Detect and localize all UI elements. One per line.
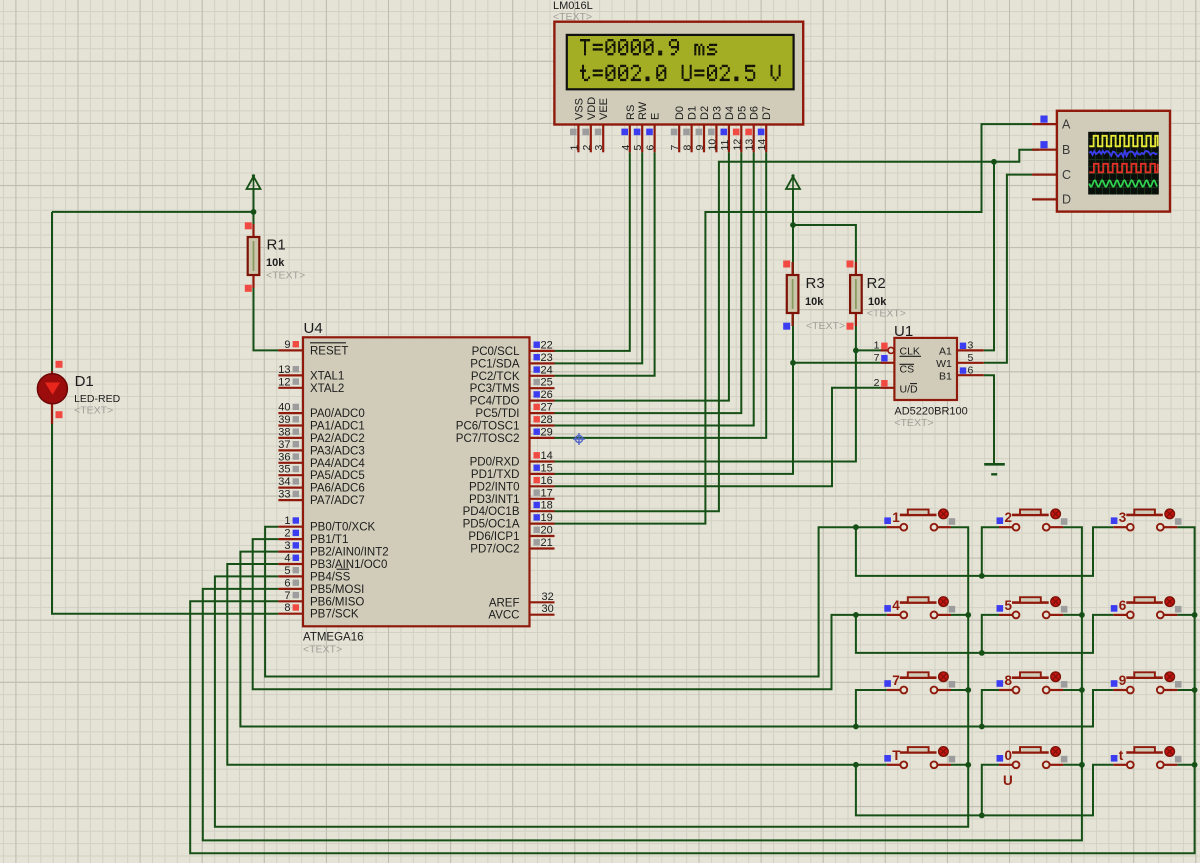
- svg-text:PA2/ADC2: PA2/ADC2: [310, 433, 365, 445]
- svg-text:PA0/ADC0: PA0/ADC0: [310, 408, 365, 420]
- U4 pin 29 PC7/TOSC2: [456, 426, 555, 445]
- U4 pin 21 PD7/OC2: [470, 537, 554, 556]
- U1 pin 7 CS: [874, 352, 914, 376]
- svg-text:4: 4: [620, 145, 632, 151]
- svg-text:A: A: [1062, 117, 1071, 131]
- junction col3 row2: [1192, 612, 1198, 618]
- LCD screen: [567, 35, 794, 89]
- svg-text:5: 5: [1005, 598, 1013, 613]
- R1 pin state squares: [245, 222, 252, 291]
- svg-text:14: 14: [541, 450, 553, 462]
- wire: LCD RS to PC0: [555, 152, 630, 351]
- wire: CLK to R2/PD0 net: [856, 349, 888, 351]
- svg-text:XTAL2: XTAL2: [310, 383, 344, 395]
- svg-text:21: 21: [541, 537, 553, 549]
- wire: col3 row2 tap: [1177, 614, 1194, 616]
- svg-text:24: 24: [541, 364, 553, 376]
- U4 pin 1 PB0/T0/XCK: [278, 515, 375, 534]
- svg-text:<TEXT>: <TEXT>: [303, 644, 342, 656]
- svg-text:1: 1: [874, 340, 880, 352]
- svg-text:10k: 10k: [805, 296, 824, 308]
- LCD pin 8 D1: [682, 106, 699, 152]
- wire: PB6 pin7 to keypad column 3: [190, 527, 1194, 853]
- svg-text:28: 28: [541, 414, 553, 426]
- svg-text:18: 18: [541, 500, 553, 512]
- svg-text:36: 36: [278, 451, 290, 463]
- wire: col3 row3 tap: [1177, 689, 1194, 691]
- U4 pin 34 PA6/ADC6: [278, 476, 365, 495]
- svg-text:<TEXT>: <TEXT>: [867, 308, 906, 320]
- wire: LCD D5 to PC5: [555, 152, 742, 413]
- wire: row2 riser to button 5: [982, 615, 999, 653]
- power symbol VCC arrow 1: [247, 174, 261, 189]
- svg-text:4: 4: [284, 553, 290, 565]
- svg-text:9: 9: [284, 339, 290, 351]
- U4 pin 7 PB6/MISO: [278, 590, 364, 609]
- svg-text:PD5/OC1A: PD5/OC1A: [463, 519, 520, 531]
- svg-text:PD0/RXD: PD0/RXD: [470, 457, 520, 469]
- svg-text:PC5/TDI: PC5/TDI: [475, 408, 519, 420]
- svg-text:8: 8: [284, 602, 290, 614]
- svg-text:29: 29: [541, 426, 553, 438]
- wire: col1 row2 tap: [951, 614, 968, 616]
- junction at R3/R2 branch: [790, 222, 796, 228]
- oscilloscope trace B blue noisy wave: [1089, 151, 1157, 157]
- oscilloscope trace D green sine wave: [1089, 180, 1157, 186]
- svg-text:A1: A1: [939, 346, 952, 358]
- svg-text:16: 16: [541, 475, 553, 487]
- svg-text:D4: D4: [724, 106, 736, 120]
- svg-text:39: 39: [278, 414, 290, 426]
- wire: row1 underpass: [856, 527, 1113, 576]
- svg-text:<TEXT>: <TEXT>: [266, 270, 305, 282]
- svg-text:W1: W1: [936, 358, 952, 370]
- wire: row3 riser to button 8: [982, 690, 999, 727]
- junction col2 row3: [1079, 687, 1085, 693]
- svg-text:t: t: [1119, 748, 1124, 763]
- push button 1 (row 1 col 1): [884, 509, 955, 530]
- LCD pin 12 D5: [731, 106, 748, 152]
- svg-text:35: 35: [278, 464, 290, 476]
- oscilloscope channel A pin: [1032, 116, 1071, 132]
- U4 pin 2 PB1/T1: [278, 528, 348, 547]
- wire: CS to R3/PD1 net: [793, 362, 881, 364]
- svg-text:1: 1: [892, 510, 900, 525]
- svg-text:40: 40: [278, 402, 290, 414]
- svg-text:D5: D5: [736, 106, 748, 120]
- junction col3 row4: [1192, 762, 1198, 768]
- U4 pin 18 PD4/OC1B: [463, 500, 555, 519]
- U4 pin 28 PC6/TOSC1: [456, 414, 555, 433]
- wire: PB4 pin5 to keypad column 1: [215, 527, 968, 827]
- junction col1 row4: [965, 762, 971, 768]
- svg-text:23: 23: [541, 352, 553, 364]
- svg-text:PD2/INT0: PD2/INT0: [469, 481, 520, 493]
- svg-text:PA3/ADC3: PA3/ADC3: [310, 445, 365, 457]
- junction col1 row3: [965, 687, 971, 693]
- svg-text:25: 25: [541, 377, 553, 389]
- origin marker: [573, 433, 585, 445]
- junction row1 rail: [853, 524, 859, 530]
- U4 pin 17 PD3/INT1: [469, 487, 555, 506]
- svg-text:2: 2: [581, 145, 593, 151]
- push button 8 (row 3 col 2): [997, 672, 1068, 693]
- svg-text:PD4/OC1B: PD4/OC1B: [463, 506, 520, 518]
- svg-text:6: 6: [968, 364, 974, 376]
- svg-text:7: 7: [874, 352, 880, 364]
- svg-text:<TEXT>: <TEXT>: [74, 405, 113, 417]
- junction row4 rail: [853, 762, 859, 768]
- LCD pin 2 VDD: [581, 97, 598, 153]
- svg-text:E: E: [650, 113, 662, 120]
- junction at CS: [790, 360, 796, 366]
- svg-text:LED-RED: LED-RED: [74, 393, 121, 405]
- svg-text:RW: RW: [637, 101, 649, 120]
- wire: branch to D1 anode: [52, 211, 254, 213]
- U4 pin 24 PC2/TCK: [471, 364, 555, 383]
- LCD text line 1: [580, 39, 717, 55]
- push button 9 (row 3 col 3): [1111, 672, 1182, 693]
- U4 pin 39 PA1/ADC1: [278, 414, 365, 433]
- U4 pin 27 PC5/TDI: [475, 402, 554, 421]
- U4 pin 16 PD2/INT0: [469, 475, 555, 494]
- push button 0 (row 4 col 2): [997, 747, 1068, 768]
- svg-text:PB2/AIN0/INT2: PB2/AIN0/INT2: [310, 547, 389, 559]
- U4 pin 23 PC1/SDA: [470, 352, 554, 371]
- junction row3 rail: [853, 724, 859, 730]
- push button 7 (row 3 col 1): [884, 672, 955, 693]
- wire: PD5/OC1A to oscilloscope A: [555, 124, 1033, 523]
- wire: col2 row4 tap: [1063, 764, 1082, 766]
- wire: PB0 pin1 to keypad row 1: [265, 527, 887, 677]
- U4 pin 30 AVCC: [488, 603, 554, 622]
- U4 pin 22 PC0/SCL: [472, 339, 555, 358]
- svg-text:<TEXT>: <TEXT>: [894, 417, 933, 429]
- svg-text:9: 9: [694, 145, 706, 151]
- svg-text:D6: D6: [749, 106, 761, 120]
- svg-text:PC4/TDO: PC4/TDO: [470, 396, 520, 408]
- U4 pin 12 XTAL2: [278, 376, 344, 395]
- svg-text:PC2/TCK: PC2/TCK: [471, 371, 520, 383]
- U4 pin 25 PC3/TMS: [470, 377, 555, 396]
- U4 pin 33 PA7/ADC7: [278, 489, 365, 508]
- oscilloscope channel D pin: [1032, 193, 1071, 207]
- junction row1 riser: [979, 573, 985, 579]
- svg-text:PB6/MISO: PB6/MISO: [310, 596, 364, 608]
- U4 pin 26 PC4/TDO: [470, 389, 555, 408]
- U4 pin 19 PD5/OC1A: [463, 512, 555, 531]
- U4 pin 14 PD0/RXD: [470, 450, 555, 469]
- wire: PB5 pin6 to keypad column 2: [203, 527, 1082, 840]
- U1 part name label: [894, 406, 967, 430]
- svg-text:34: 34: [278, 476, 290, 488]
- svg-text:7: 7: [669, 145, 681, 151]
- push button 4 (row 2 col 1): [884, 597, 955, 619]
- svg-text:PA5/ADC5: PA5/ADC5: [310, 470, 365, 482]
- svg-text:C: C: [1062, 168, 1071, 182]
- wire: PB1 pin2 to keypad row 2: [253, 539, 887, 689]
- wire: row4 underpass: [856, 765, 1113, 816]
- U4 pin 40 PA0/ADC0: [278, 402, 365, 421]
- oscilloscope trace A yellow square wave: [1089, 136, 1157, 147]
- svg-text:1: 1: [568, 145, 580, 151]
- svg-text:AVCC: AVCC: [488, 610, 519, 622]
- svg-text:11: 11: [719, 139, 731, 150]
- junction scope B net: [991, 159, 997, 165]
- ground symbol: [984, 464, 1005, 474]
- svg-text:R1: R1: [267, 237, 286, 254]
- resistor R1: [248, 224, 260, 288]
- LCD pin 3 VEE: [593, 98, 610, 152]
- svg-text:4: 4: [892, 598, 900, 613]
- LCD pin 6 E: [645, 113, 662, 153]
- wire: VCC arrow to R1 to RESET pin 9: [254, 188, 279, 350]
- svg-text:17: 17: [541, 487, 553, 499]
- junction row2 riser: [979, 650, 985, 656]
- svg-text:CS: CS: [900, 364, 915, 376]
- U4 pin 3 PB2/AIN0/INT2: [278, 540, 388, 559]
- svg-text:32: 32: [542, 591, 554, 603]
- svg-text:AREF: AREF: [489, 597, 520, 609]
- wire: col1 row3 tap: [951, 689, 968, 691]
- svg-text:T: T: [892, 748, 901, 763]
- svg-text:30: 30: [542, 603, 554, 615]
- svg-text:15: 15: [541, 462, 553, 474]
- svg-text:0: 0: [1005, 748, 1013, 763]
- junction col1 row2: [965, 612, 971, 618]
- wire: D1 cathode to PB7 pin 8: [52, 403, 278, 614]
- wire: PB3 pin4 to keypad row 4: [227, 564, 887, 765]
- wire: row2 underpass: [856, 615, 1113, 653]
- svg-text:PB0/T0/XCK: PB0/T0/XCK: [310, 522, 376, 534]
- LCD pin 13 D6: [744, 106, 761, 152]
- svg-text:PC6/TOSC1: PC6/TOSC1: [456, 421, 520, 433]
- svg-text:B1: B1: [939, 370, 952, 382]
- LCD pin 1 VSS: [568, 98, 585, 152]
- IC U1 AD5220 body: [894, 338, 957, 400]
- svg-text:ATMEGA16: ATMEGA16: [303, 632, 364, 644]
- svg-text:PB4/SS: PB4/SS: [310, 571, 351, 583]
- U1 pin 3 A1: [939, 340, 984, 358]
- svg-text:VEE: VEE: [598, 98, 610, 120]
- D1 labels: [74, 373, 121, 417]
- wire: LCD RW to PC1: [555, 152, 643, 363]
- LCD pin 9 D2: [694, 106, 711, 152]
- svg-text:10k: 10k: [868, 296, 887, 308]
- wire: branch to R2 top, R2 to PD0 pin 14: [555, 225, 856, 462]
- svg-text:RESET: RESET: [310, 345, 348, 357]
- svg-text:PA6/ADC6: PA6/ADC6: [310, 483, 365, 495]
- U1 pin 1 CLK: [874, 340, 921, 358]
- svg-text:PB5/MOSI: PB5/MOSI: [310, 584, 364, 596]
- oscilloscope trace C red square wave: [1089, 164, 1157, 173]
- svg-text:10k: 10k: [266, 257, 285, 269]
- junction col2 row2: [1079, 612, 1085, 618]
- junction col3 row3: [1192, 687, 1198, 693]
- wire: LCD D4 to PC4: [555, 152, 729, 400]
- wire: row3 rail riser: [856, 690, 887, 727]
- LCD text line 2: [580, 65, 781, 81]
- svg-text:D1: D1: [75, 373, 94, 390]
- svg-text:5: 5: [284, 565, 290, 577]
- svg-text:6: 6: [284, 577, 290, 589]
- svg-text:3: 3: [968, 340, 974, 352]
- wire: col2 row3 tap: [1063, 689, 1082, 691]
- svg-text:D: D: [1062, 193, 1071, 207]
- push button 3 (row 1 col 3): [1111, 509, 1182, 530]
- svg-text:D3: D3: [711, 106, 723, 120]
- svg-text:XTAL1: XTAL1: [310, 370, 344, 382]
- oscilloscope channel C pin: [1032, 168, 1071, 182]
- svg-text:5: 5: [968, 352, 974, 364]
- push button t (row 4 col 3): [1111, 747, 1182, 768]
- svg-text:R3: R3: [806, 275, 825, 292]
- LCD pin 5 RW: [632, 101, 649, 152]
- svg-text:U/D: U/D: [900, 384, 919, 396]
- LCD LM016L body: [554, 22, 803, 125]
- svg-text:PB7/SCK: PB7/SCK: [310, 609, 359, 621]
- LCD pin 7 D0: [669, 106, 686, 152]
- svg-text:19: 19: [541, 512, 553, 524]
- svg-text:38: 38: [278, 426, 290, 438]
- svg-text:PC0/SCL: PC0/SCL: [472, 346, 521, 358]
- junction row2 rail: [853, 612, 859, 618]
- U4 pin 15 PD1/TXD: [471, 462, 555, 481]
- svg-text:2: 2: [874, 377, 880, 389]
- svg-text:26: 26: [541, 389, 553, 401]
- wire: LCD D6 to PC6: [555, 152, 754, 425]
- wire: scope B net down to U1 A1: [984, 162, 994, 351]
- power symbol VCC arrow 2: [786, 174, 800, 189]
- wire: PD4/OC1B to oscilloscope B: [555, 150, 1039, 512]
- svg-text:PD1/TXD: PD1/TXD: [471, 469, 520, 481]
- svg-text:6: 6: [1119, 598, 1127, 613]
- svg-text:PC3/TMS: PC3/TMS: [470, 383, 520, 395]
- U4 pin 5 PB4/SS: [278, 565, 350, 584]
- U1 pin 5 W1: [936, 352, 984, 370]
- R3 pin state squares: [783, 261, 790, 330]
- svg-text:U: U: [1003, 773, 1013, 788]
- svg-text:PD7/OC2: PD7/OC2: [470, 544, 519, 556]
- U4 pin 36 PA4/ADC4: [278, 451, 365, 470]
- svg-text:37: 37: [278, 439, 290, 451]
- junction at CLK: [853, 348, 859, 354]
- svg-text:R2: R2: [867, 275, 886, 292]
- U4 pin 9 RESET: [278, 339, 348, 358]
- svg-text:8: 8: [682, 145, 694, 151]
- svg-text:D1: D1: [687, 106, 699, 120]
- wire: col3 row4 tap: [1177, 764, 1194, 766]
- svg-text:B: B: [1062, 143, 1070, 157]
- U4 pin 13 XTAL1: [278, 364, 344, 383]
- wire: U1 B1 to ground: [984, 375, 994, 463]
- svg-text:CLK: CLK: [900, 346, 920, 358]
- svg-text:5: 5: [632, 145, 644, 151]
- U1 pin 6 B1: [939, 364, 984, 382]
- svg-text:22: 22: [541, 339, 553, 351]
- R1 labels: [266, 237, 305, 282]
- LCD pin 14 D7: [756, 106, 773, 152]
- oscilloscope channel B pin: [1032, 141, 1070, 157]
- svg-text:3: 3: [1119, 510, 1127, 525]
- svg-text:D2: D2: [699, 106, 711, 120]
- svg-text:14: 14: [756, 139, 768, 151]
- U4 pin 38 PA2/ADC2: [278, 426, 365, 445]
- svg-text:PC7/TOSC2: PC7/TOSC2: [456, 433, 520, 445]
- svg-text:13: 13: [278, 364, 290, 376]
- LCD pin 11 D4: [719, 106, 736, 152]
- svg-text:12: 12: [731, 139, 743, 151]
- U4 pin 35 PA5/ADC5: [278, 464, 365, 483]
- LCD LM016L labels: [553, 0, 593, 23]
- wire: VCC arrow2 through R3 to PD1 pin 15: [555, 188, 794, 474]
- svg-text:<TEXT>: <TEXT>: [806, 320, 845, 332]
- svg-text:PA7/ADC7: PA7/ADC7: [310, 495, 365, 507]
- U4 pin 37 PA3/ADC3: [278, 439, 365, 458]
- wire: D1 top: [51, 212, 53, 375]
- wire: LCD D7 to PC7: [555, 152, 767, 438]
- svg-text:3: 3: [284, 540, 290, 552]
- svg-text:12: 12: [278, 376, 290, 388]
- svg-text:PD6/ICP1: PD6/ICP1: [468, 531, 519, 543]
- junction row3 riser: [979, 724, 985, 730]
- wire: row4 riser to button 0: [982, 765, 999, 816]
- svg-text:RS: RS: [625, 105, 637, 120]
- R3 labels: [805, 275, 845, 332]
- svg-text:9: 9: [1119, 673, 1127, 688]
- svg-text:PB1/T1: PB1/T1: [310, 534, 348, 546]
- svg-text:7: 7: [284, 590, 290, 602]
- svg-text:D0: D0: [674, 106, 686, 120]
- svg-text:2: 2: [284, 528, 290, 540]
- R2 labels: [867, 275, 906, 320]
- wire: col1 row4 tap: [951, 764, 968, 766]
- svg-text:33: 33: [278, 489, 290, 501]
- LCD pin 10 D3: [706, 106, 723, 152]
- oscilloscope screen: [1088, 132, 1159, 195]
- D1 pin state squares: [56, 361, 63, 418]
- LED D1: [37, 371, 67, 424]
- svg-text:27: 27: [541, 402, 553, 414]
- U4 pin 6 PB5/MOSI: [278, 577, 364, 596]
- svg-text:U4: U4: [304, 320, 323, 337]
- wire: row1 riser to button 2: [982, 527, 999, 576]
- svg-text:PA1/ADC1: PA1/ADC1: [310, 421, 365, 433]
- wire: col2 row2 tap: [1063, 614, 1082, 616]
- svg-text:D7: D7: [761, 106, 773, 120]
- resistor R3: [787, 262, 799, 326]
- svg-text:6: 6: [645, 145, 657, 151]
- U4 pin 4 PB3/AIN1/OC0: [278, 553, 387, 572]
- R2 pin state squares: [847, 261, 854, 330]
- svg-text:PC1/SDA: PC1/SDA: [470, 358, 520, 370]
- junction at R1 branch: [251, 209, 257, 215]
- push button 6 (row 2 col 3): [1111, 597, 1182, 619]
- svg-text:AD5220BR100: AD5220BR100: [894, 406, 967, 418]
- wire: LCD E to PC2: [555, 152, 655, 375]
- svg-text:20: 20: [541, 525, 553, 537]
- svg-text:U1: U1: [894, 323, 913, 340]
- svg-text:1: 1: [284, 515, 290, 527]
- svg-text:10: 10: [706, 139, 718, 151]
- svg-text:13: 13: [744, 139, 756, 151]
- U1 pin 2 U/D: [874, 377, 918, 396]
- junction row4 riser: [979, 813, 985, 819]
- svg-text:7: 7: [892, 673, 900, 688]
- svg-text:2: 2: [1005, 510, 1013, 525]
- resistor R2: [850, 262, 862, 326]
- wire: U/D to PD2 pin 16: [555, 388, 881, 487]
